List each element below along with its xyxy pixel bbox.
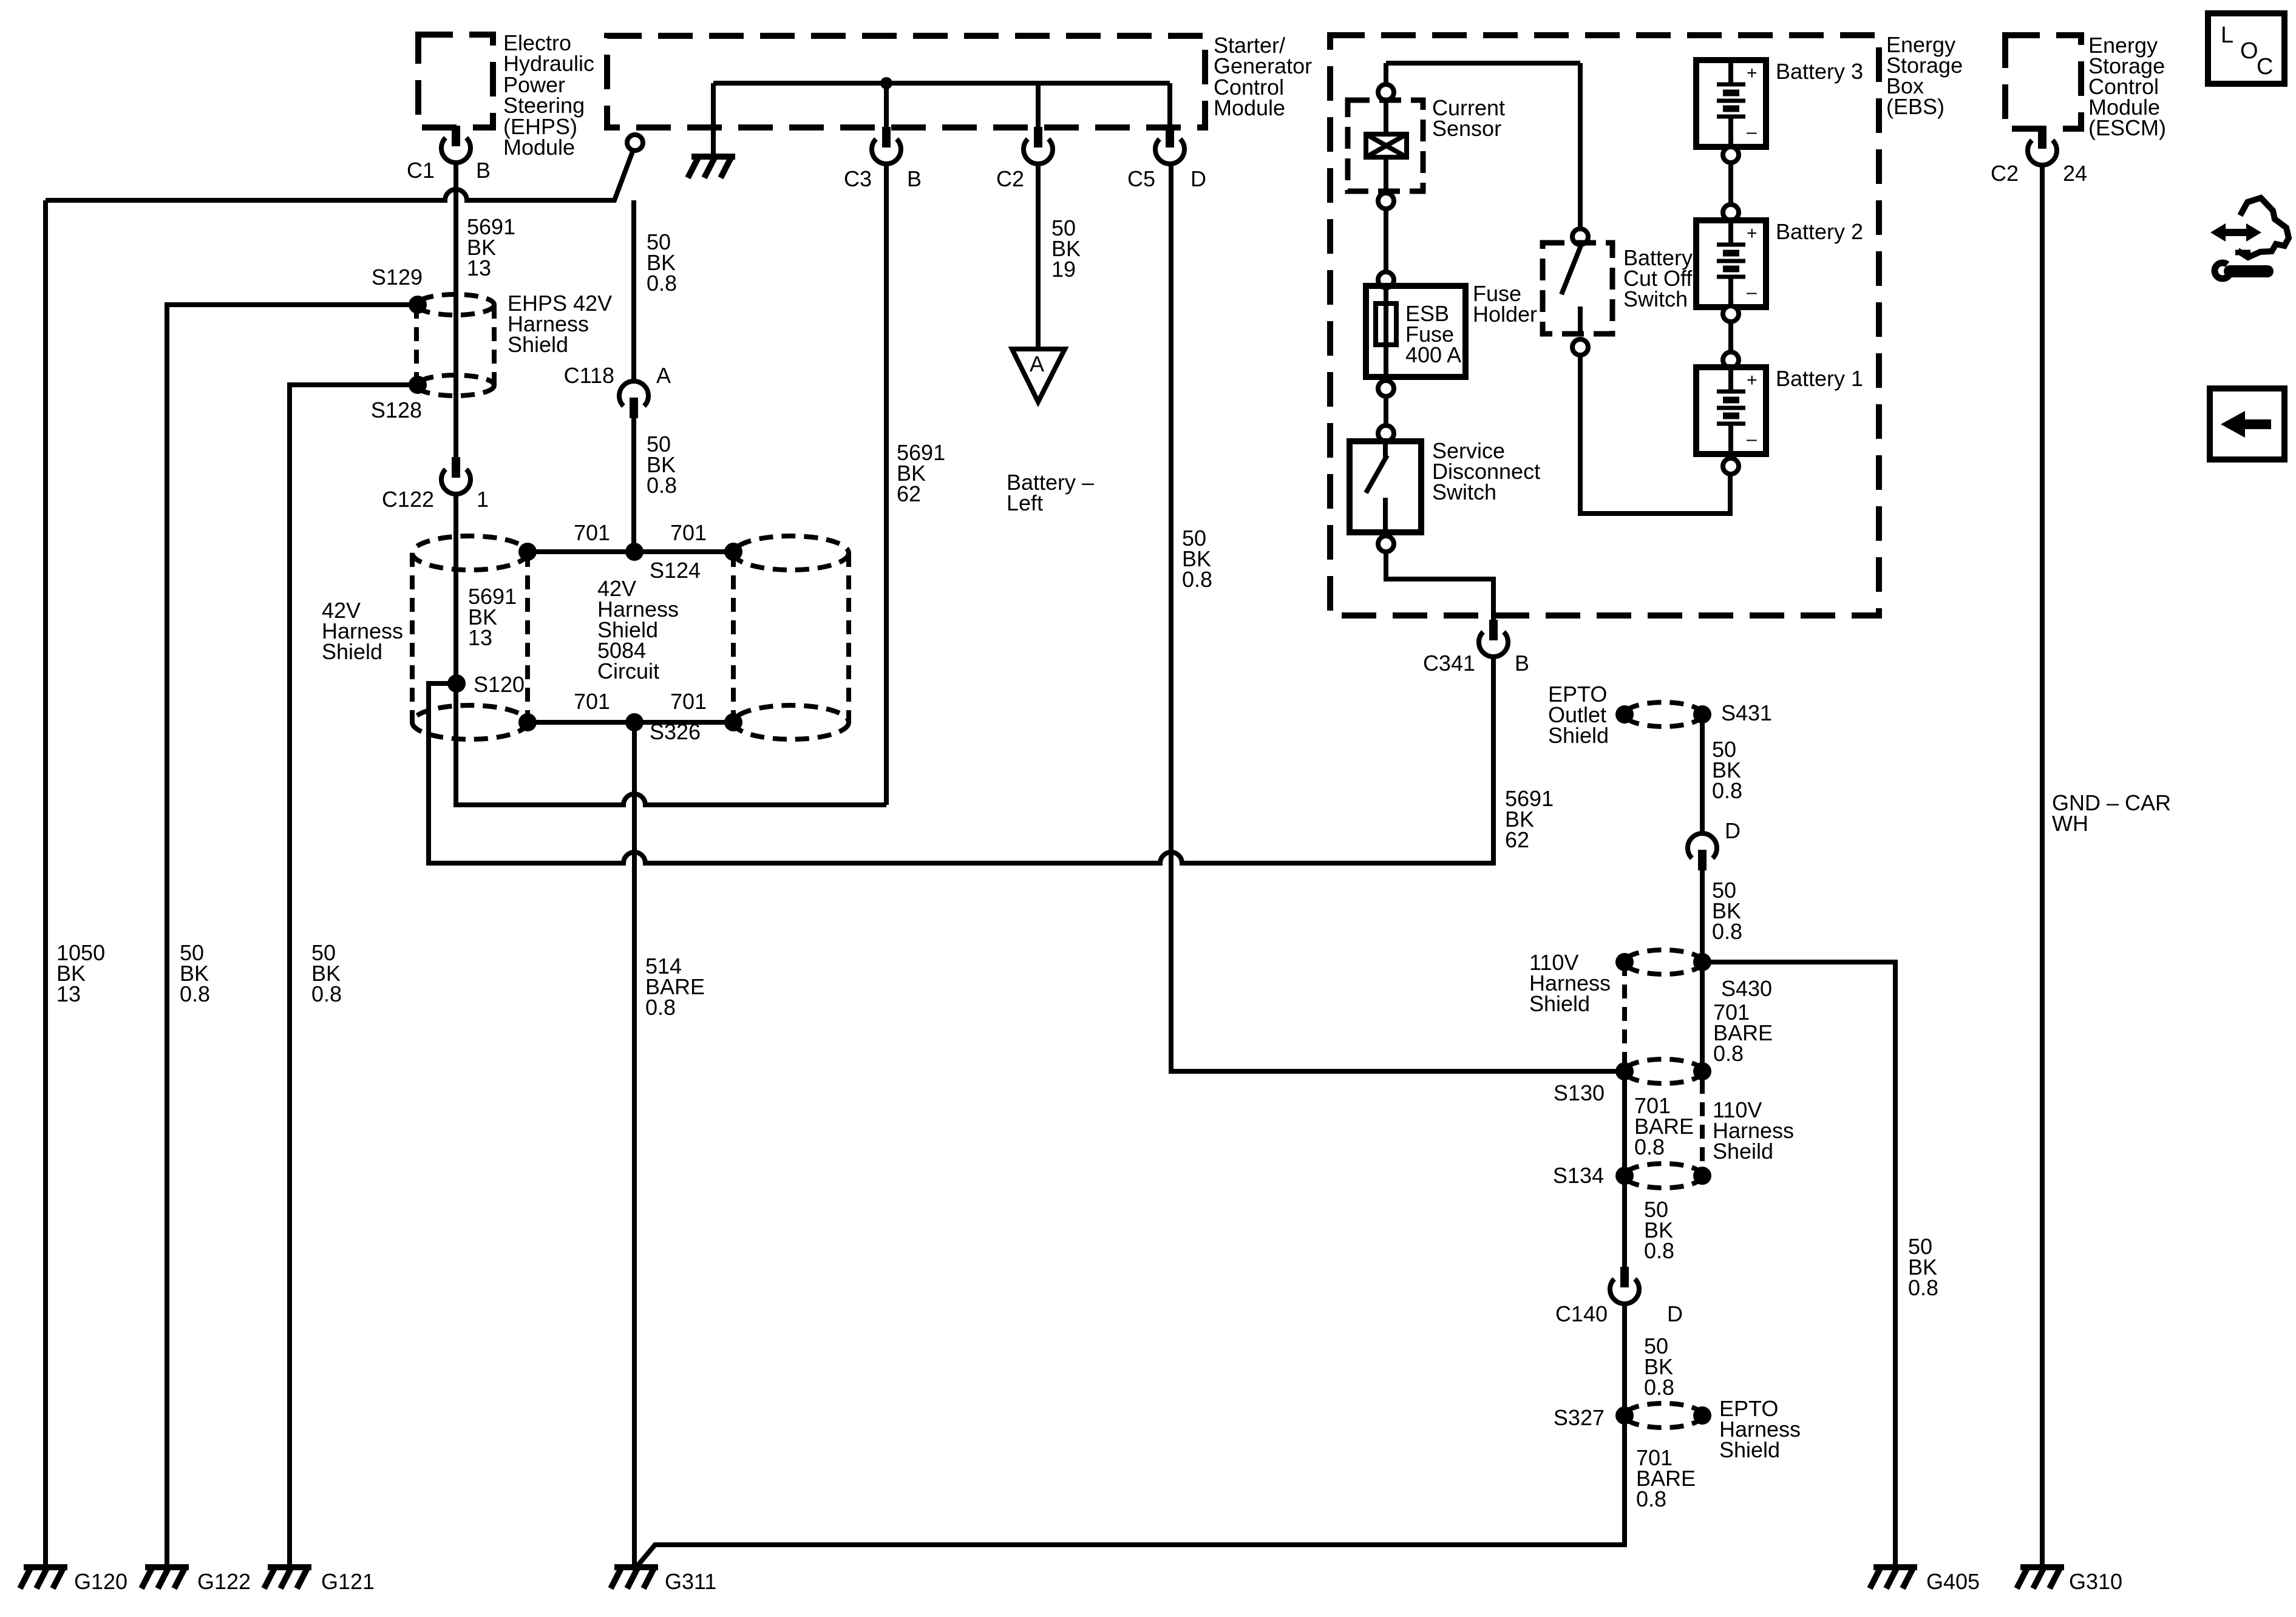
svg-text:701: 701 [670,520,707,545]
node bus junction [880,77,892,89]
svg-text:D: D [1190,166,1206,191]
svg-text:0.8: 0.8 [311,981,342,1006]
wire bus drop C5 [1167,83,1172,127]
label wire 701 BARE 0.8 (S430-S130) [1713,1000,1773,1066]
svg-text:Holder: Holder [1473,302,1537,327]
label EPTO Outlet Shield [1548,682,1609,748]
wire S326 to G311 [632,722,637,1567]
label wire 50 BK 0.8 (S431-D) [1712,737,1742,803]
node S130 right [1693,1062,1711,1080]
node S120 [447,674,466,693]
terminal circle battery2 top [1723,205,1739,220]
battery Battery 3 [1696,60,1766,147]
svg-text:0.8: 0.8 [1712,778,1742,803]
label EPTO Harness Shield [1719,1396,1801,1462]
wire into sensor [1384,100,1388,134]
svg-text:S431: S431 [1721,700,1772,725]
label wire 50 BK 0.8 (C5) [1182,526,1212,592]
node S430 [1693,953,1711,971]
node 701 top left [518,543,537,561]
wire C140 down to S327 [1622,1304,1627,1415]
label EHPS module [503,30,594,160]
svg-text:C118: C118 [564,363,614,388]
label Battery Cut Off Switch [1623,245,1693,311]
svg-text:B: B [907,166,922,191]
wire C1 to C122 [453,163,458,457]
connector C2 pin 24 (ESCM) [2028,128,2057,165]
svg-text:S124: S124 [650,558,701,583]
wire G120 riser down to ground [43,200,48,1567]
symbol current sensor box with X [1366,134,1407,157]
label wire 50 BK 0.8 (below C118) [647,432,677,498]
symbol Battery - Left triangle A [1012,349,1065,402]
label SGCM [1214,33,1312,120]
svg-text:Shield: Shield [1719,1437,1780,1462]
svg-text:C140: C140 [1555,1301,1608,1326]
svg-text:G311: G311 [665,1569,716,1594]
connector C341 pin B [1479,620,1508,657]
wire bus drop to internal ground [711,83,716,157]
wire sensor down [1384,157,1388,194]
battery Battery 2 [1696,220,1766,307]
wire C5 riser down and across to S130 [1171,164,1625,1071]
label 42V Harness Shield [322,598,403,664]
label Service Disconnect Switch [1432,438,1540,504]
shield 42V right cylinder right side [846,553,851,722]
connector C3 pin B [872,127,901,164]
label EBS [1886,32,1963,119]
wire ESCM C2 to G310 [2040,165,2045,1567]
svg-text:Battery 1: Battery 1 [1776,366,1863,391]
svg-text:S120: S120 [474,672,525,697]
label EHPS 42V Harness Shield [508,291,612,357]
svg-text:Shield: Shield [1529,991,1590,1016]
terminal circle battery2 bottom [1723,306,1739,322]
svg-text:Module: Module [1214,95,1285,120]
svg-text:Module: Module [503,135,575,160]
svg-text:B: B [1515,651,1529,676]
svg-text:13: 13 [468,625,492,650]
label wire 514 BARE 0.8 [645,954,705,1020]
node S327 right [1693,1406,1711,1425]
wire to SDS circle [1384,396,1388,426]
svg-text:0.8: 0.8 [647,473,677,498]
shield EHPS cylinder right side [492,305,497,385]
node 110V shield left (S430 row) [1615,953,1634,971]
label 42V Harness Shield 5084 Circuit [597,576,679,683]
terminal circle below fuse holder [1378,381,1394,396]
terminal circle battery1 top [1723,352,1739,368]
terminal circle battery1 bottom [1723,458,1739,474]
label wire 50 BK 19 [1051,215,1081,282]
shield 42V right cylinder left side [731,553,736,722]
node S130 [1615,1062,1634,1080]
label 110V Harness Shield (upper) [1529,950,1611,1016]
svg-text:C1: C1 [407,158,435,183]
shield 42V left cylinder left side [410,553,415,722]
svg-text:D: D [1725,818,1741,843]
symbol BCOS lower contact stub [1578,307,1583,333]
svg-text:24: 24 [2063,161,2087,186]
svg-text:S430: S430 [1721,976,1772,1001]
label wire 5691 BK 13 [467,214,515,280]
connector C122 pin 1 [441,457,470,494]
label wire 50 BK 0.8 (S134-C140) [1644,1197,1674,1263]
svg-text:L: L [2221,22,2233,48]
label wire 701 BARE 0.8 (below S327) [1636,1445,1696,1511]
node S128 [409,376,427,394]
shield EHPS cylinder left side [414,305,419,385]
wire S130 down to S134 [1622,1080,1627,1167]
terminal circle below current sensor [1378,193,1394,209]
wire top bus to sensor circle [1384,63,1388,86]
wire batt2 to batt1 [1728,322,1733,353]
node S327 [1615,1406,1634,1425]
connector C1 pin B [441,126,470,163]
svg-text:C122: C122 [382,487,434,512]
svg-text:0.8: 0.8 [180,981,210,1006]
svg-text:701: 701 [574,520,610,545]
label wire 50 BK 0.8 (G121) [311,940,342,1006]
svg-text:701: 701 [574,689,610,714]
svg-text:Sheild: Sheild [1713,1139,1773,1164]
shield 110V cylinder left side [1622,962,1627,1063]
wire C2 riser to battery symbol [1036,164,1041,349]
node S134 [1615,1167,1634,1185]
svg-text:0.8: 0.8 [1644,1238,1674,1263]
wire batt3 to batt2 [1728,163,1733,205]
wire S129 branch to G122 [167,305,418,1567]
wire C122 down to corner and across to C3 riser with hop over G311 riser [456,494,886,805]
ground G311 [611,1567,658,1588]
shield ellipse S134 row [1625,1164,1702,1188]
shield EHPS cylinder bottom ellipse [416,375,494,396]
ground G121 [264,1567,311,1588]
shield 42V right cylinder bottom ellipse [733,705,849,739]
svg-text:Shield: Shield [1548,723,1609,748]
shield EHPS cylinder top ellipse [416,294,494,315]
shield 42V left cylinder right side [525,553,530,722]
label 110V Harness Sheild (lower) [1713,1097,1794,1164]
connector C5 pin D [1155,127,1184,164]
component box battery cut off switch (dashed) [1543,243,1612,334]
svg-text:Circuit: Circuit [597,659,659,683]
node S134 right [1693,1167,1711,1185]
label wire 5691 BK 62 [897,440,945,506]
svg-text:S134: S134 [1553,1163,1604,1188]
shield 42V right cylinder top ellipse [733,536,849,570]
wire EBS top bus [1386,61,1580,66]
shield 42V left cylinder top ellipse [412,536,528,570]
node 701 bottom right [724,713,742,731]
module box: Energy Storage Box (EBS) [1330,35,1879,615]
svg-text:C2: C2 [1991,161,2019,186]
svg-text:701: 701 [670,689,707,714]
svg-text:S128: S128 [371,398,422,422]
svg-text:A: A [656,363,671,388]
wire B: C341 down across to S120 branch with hops [429,657,1493,863]
svg-text:C2: C2 [996,166,1024,191]
svg-text:62: 62 [897,481,921,506]
shield EPTO outlet ellipse [1625,702,1702,727]
svg-text:Battery 3: Battery 3 [1776,59,1863,84]
wire 701 bottom run [528,720,733,725]
wire bus drop C3 [884,83,889,127]
label Fuse Holder [1473,281,1537,327]
shield 110V top ellipse (S430) [1625,950,1702,974]
terminal circle battery3 bottom [1723,147,1739,163]
symbol ESB fuse element [1376,303,1396,345]
svg-text:0.8: 0.8 [1712,919,1742,944]
shield 42V left cylinder bottom ellipse [412,705,528,739]
terminal circle below SDS [1378,536,1394,552]
label wire 5691 BK 13 (shield) [468,584,517,650]
node 701 top right [724,543,742,561]
ground G122 [141,1567,189,1588]
wire S128 branch to G121 [290,385,418,1567]
label Current Sensor [1432,95,1505,141]
component box fuse holder [1366,286,1466,377]
svg-text:13: 13 [467,256,491,280]
terminal circle BCOS bottom [1572,339,1588,355]
label wire 50 BK 0.8 (C140-S327) [1644,1334,1674,1400]
wire C118 to S124 [631,418,636,552]
label wire 1050 BK 13 [56,940,105,1006]
label wire 701 BARE 0.8 (S130-S134) [1634,1093,1694,1159]
terminal circle above fuse holder [1378,272,1394,288]
label wire 50 BK 0.8 (D-S430) [1712,878,1742,944]
wire SGCM internal bus [713,81,1170,86]
wire bus drop C2 [1036,83,1041,127]
icon car with double arrow and wrench [2210,198,2289,279]
svg-text:Shield: Shield [508,332,568,357]
symbol SDS switch blade [1366,441,1387,532]
svg-text:Shield: Shield [322,639,382,664]
svg-text:C341: C341 [1423,651,1475,676]
connector C118 pin A [619,381,648,418]
svg-text:0.8: 0.8 [1634,1134,1665,1159]
connector D (EPTO) [1688,833,1717,870]
wire D to S430 [1700,870,1705,962]
svg-text:A: A [1030,351,1044,376]
label Battery - Left [1007,470,1094,515]
svg-text:C3: C3 [844,166,872,191]
wire fuse box down [1384,345,1388,381]
svg-text:Left: Left [1007,490,1043,515]
svg-text:0.8: 0.8 [1182,567,1212,592]
icon LOC box [2208,13,2284,84]
component box service disconnect switch [1350,441,1421,532]
connector C140 pin D [1610,1267,1639,1304]
svg-text:(EBS): (EBS) [1886,94,1944,119]
svg-text:62: 62 [1505,827,1529,852]
label wire 50 BK 0.8 (G122) [180,940,210,1006]
label ESB Fuse 400 A [1405,301,1461,367]
svg-text:D: D [1667,1301,1683,1326]
svg-text:C5: C5 [1127,166,1155,191]
label GND - CAR WH [2052,790,2171,836]
wire C118 upper segment [631,200,636,381]
svg-text:0.8: 0.8 [647,271,677,296]
svg-text:1: 1 [477,487,489,512]
wire C3 riser down [884,164,889,805]
svg-text:0.8: 0.8 [1644,1375,1674,1400]
node S326 [625,713,644,731]
wire BCOS riser [1578,63,1583,229]
terminal circle above service disconnect switch [1378,425,1394,441]
svg-text:B: B [476,158,491,183]
svg-text:G120: G120 [74,1569,127,1594]
wire SDS to C341 [1386,552,1493,620]
wire S430 down to S130 [1700,971,1705,1071]
svg-text:400 A: 400 A [1405,342,1461,367]
svg-text:0.8: 0.8 [645,995,676,1020]
node EPTO outlet shield left [1615,705,1634,724]
svg-text:S130: S130 [1554,1080,1605,1105]
symbol BCOS blade [1561,246,1581,294]
node S124 [625,543,644,561]
ground SGCM internal [688,157,735,178]
terminal circle BCOS top [1572,229,1588,245]
label wire 50 BK 0.8 (above C118) [647,229,677,296]
svg-text:S327: S327 [1554,1405,1605,1430]
label wire 50 BK 0.8 (G405) [1908,1234,1938,1300]
module box: Starter/Generator Control Module [607,36,1205,127]
ground G120 [20,1567,67,1588]
module box: Energy Storage Control Module (ESCM) [2005,35,2081,129]
ground G405 [1870,1567,1917,1588]
svg-text:Battery 2: Battery 2 [1776,219,1863,244]
ground G310 [2017,1567,2064,1588]
wire to fuse circle [1384,209,1388,273]
svg-text:13: 13 [56,981,81,1006]
label wire 5691 BK 62 (C341) [1505,786,1554,852]
node 701 bottom left [518,713,537,731]
wire 701 top run [528,549,733,554]
module box: Electro Hydraulic Power Steering (EHPS) Module [418,35,493,127]
icon back arrow box [2210,388,2284,459]
svg-text:0.8: 0.8 [1636,1486,1666,1511]
label ESCM [2088,33,2166,140]
node S431 [1693,705,1711,724]
svg-text:Switch: Switch [1432,480,1496,504]
wire BCOS down to battery bottom [1580,355,1730,514]
component box current sensor (dashed) [1348,100,1423,191]
wire S431 to connector D [1700,723,1705,833]
wire horizontal from G120 riser to SGCM terminal with hop over C1 wire [46,150,633,200]
svg-text:G122: G122 [197,1569,251,1594]
wire S134 down to C140 [1622,1184,1627,1267]
svg-text:G310: G310 [2069,1569,2122,1594]
svg-text:0.8: 0.8 [1713,1041,1744,1066]
svg-text:19: 19 [1051,257,1076,282]
terminal circle above current sensor [1378,84,1394,100]
connector C2 (SGCM) [1024,127,1053,164]
svg-text:0.8: 0.8 [1908,1275,1938,1300]
terminal circle SGCM to EHPS line [627,135,643,151]
shield 110V lower cylinder right side [1700,1080,1705,1167]
shield ellipse S327 row [1625,1403,1702,1428]
battery Battery 1 [1696,367,1766,454]
svg-text:S129: S129 [372,265,423,290]
svg-text:Sensor: Sensor [1432,116,1501,141]
svg-text:O: O [2240,38,2258,64]
wire through fuse [1384,288,1388,345]
svg-text:S326: S326 [650,719,701,744]
svg-text:G405: G405 [1926,1569,1980,1594]
shield ellipse S130 row [1625,1059,1702,1083]
svg-text:(ESCM): (ESCM) [2088,115,2166,140]
node S129 [409,296,427,314]
svg-text:Switch: Switch [1623,286,1688,311]
svg-text:WH: WH [2052,811,2088,836]
wire S327 down and across to G311 [636,1424,1625,1567]
svg-text:C: C [2257,54,2273,80]
wire S430 branch to G405 [1702,962,1895,1567]
svg-text:G121: G121 [321,1569,375,1594]
